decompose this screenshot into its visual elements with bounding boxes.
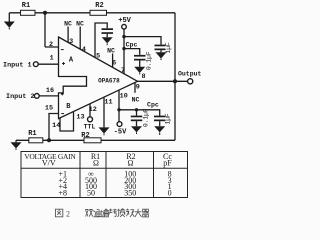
- svg-text:1µF: 1µF: [165, 113, 172, 124]
- svg-text:-5V: -5V: [114, 129, 127, 137]
- svg-text:Input 2: Input 2: [6, 93, 35, 101]
- svg-text:7: 7: [121, 67, 125, 75]
- svg-text:3: 3: [69, 38, 73, 46]
- svg-text:A: A: [69, 57, 74, 65]
- svg-text:12: 12: [89, 106, 97, 114]
- svg-text:14: 14: [52, 122, 60, 130]
- svg-text:pF: pF: [163, 159, 172, 168]
- svg-text:NC: NC: [132, 97, 140, 104]
- svg-text:6: 6: [112, 59, 116, 67]
- svg-text:NC: NC: [64, 20, 72, 27]
- svg-text:0.1µF: 0.1µF: [146, 51, 153, 70]
- svg-text:Ω: Ω: [93, 159, 99, 168]
- svg-text:R1: R1: [28, 130, 36, 138]
- svg-text:16: 16: [46, 87, 54, 95]
- svg-text:13: 13: [76, 113, 84, 121]
- svg-text:NC: NC: [76, 20, 84, 27]
- svg-text:Ω: Ω: [128, 159, 134, 168]
- svg-text:R2: R2: [95, 2, 103, 10]
- svg-text:Input 1: Input 1: [3, 61, 32, 69]
- svg-text:5: 5: [96, 53, 100, 61]
- svg-text:11: 11: [104, 98, 112, 106]
- svg-text:+5V: +5V: [118, 17, 131, 25]
- svg-text:R2: R2: [81, 132, 89, 140]
- svg-text:NC: NC: [107, 47, 115, 54]
- svg-text:2: 2: [66, 209, 70, 218]
- svg-text:0: 0: [168, 188, 172, 197]
- svg-text:9: 9: [136, 84, 140, 92]
- svg-text:350: 350: [124, 188, 136, 197]
- svg-text:+8: +8: [59, 188, 68, 197]
- svg-text:50: 50: [87, 188, 95, 197]
- svg-text:R1: R1: [22, 2, 30, 10]
- svg-text:8: 8: [141, 73, 145, 81]
- svg-text:2: 2: [49, 41, 53, 49]
- svg-text:4: 4: [82, 46, 86, 54]
- svg-text:10: 10: [120, 92, 128, 100]
- svg-text:1µF: 1µF: [165, 42, 172, 53]
- svg-text:Output: Output: [178, 70, 202, 77]
- svg-text:TTL: TTL: [84, 123, 96, 130]
- svg-text:V/V: V/V: [42, 159, 56, 168]
- svg-text:15: 15: [45, 105, 53, 113]
- svg-text:0.1µF: 0.1µF: [142, 108, 149, 127]
- svg-text:1: 1: [50, 55, 54, 63]
- svg-text:Cpc: Cpc: [147, 102, 159, 109]
- svg-text:Cpc: Cpc: [126, 41, 138, 48]
- svg-text:B: B: [66, 103, 71, 111]
- svg-text:OPA678: OPA678: [98, 77, 120, 84]
